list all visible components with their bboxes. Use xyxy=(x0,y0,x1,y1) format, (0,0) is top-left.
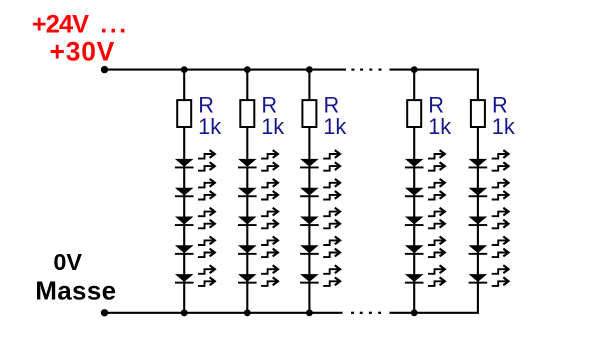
LED D19 (branch 4, position 4): diode triangle, cathode bar, light arrows xyxy=(405,237,445,258)
svg-text:1k: 1k xyxy=(492,114,515,139)
LED D25 (branch 5, position 5): diode triangle, cathode bar, light arrows xyxy=(469,265,509,286)
svg-text:1k: 1k xyxy=(261,114,284,139)
junction node: branch 1 to top rail xyxy=(181,66,188,73)
svg-text:1k: 1k xyxy=(323,114,346,139)
wire: branch 1 vertical from top rail to resistor xyxy=(183,70,185,102)
wire: branch 4 vertical from resistor through LED string to bottom rail xyxy=(413,126,415,313)
LED D1 (branch 1, position 1): diode triangle, cathode bar, light arrows xyxy=(175,150,215,171)
svg-text:0V: 0V xyxy=(53,249,82,275)
terminal node: +24V supply connection point xyxy=(101,66,108,73)
wire: branch 2 vertical from resistor through LED string to bottom rail xyxy=(246,126,248,313)
svg-text:Masse: Masse xyxy=(35,275,116,305)
wire: top rail right segment to last branch corner xyxy=(390,69,479,71)
junction node: branch 2 to top rail xyxy=(244,66,251,73)
junction node: branch 4 to bottom rail xyxy=(411,309,418,316)
wire: bottom rail continuation dots (break) xyxy=(351,312,381,314)
LED D2 (branch 1, position 2): diode triangle, cathode bar, light arrows xyxy=(175,179,215,200)
LED D10 (branch 2, position 5): diode triangle, cathode bar, light arrows xyxy=(238,265,278,286)
LED D23 (branch 5, position 3): diode triangle, cathode bar, light arrows xyxy=(469,208,509,229)
LED D3 (branch 1, position 3): diode triangle, cathode bar, light arrows xyxy=(175,208,215,229)
LED D7 (branch 2, position 2): diode triangle, cathode bar, light arrows xyxy=(238,179,278,200)
resistor R2 1k body xyxy=(240,100,254,127)
junction node: branch 2 to bottom rail xyxy=(244,309,251,316)
svg-text:1k: 1k xyxy=(428,114,451,139)
LED D16 (branch 4, position 1): diode triangle, cathode bar, light arrows xyxy=(405,150,445,171)
wire: branch 2 vertical from top rail to resistor xyxy=(246,70,248,102)
LED D5 (branch 1, position 5): diode triangle, cathode bar, light arrows xyxy=(175,265,215,286)
wire: branch 5 vertical from resistor through LED string to bottom rail xyxy=(477,126,479,313)
LED D8 (branch 2, position 3): diode triangle, cathode bar, light arrows xyxy=(238,208,278,229)
wire: top rail continuation dots (break) xyxy=(351,69,381,71)
wire: bottom rail right segment to last branch corner xyxy=(390,312,479,314)
terminal node: 0V ground connection point xyxy=(101,309,108,316)
LED D13 (branch 3, position 3): diode triangle, cathode bar, light arrows xyxy=(300,208,340,229)
LED D9 (branch 2, position 4): diode triangle, cathode bar, light arrows xyxy=(238,237,278,258)
LED D17 (branch 4, position 2): diode triangle, cathode bar, light arrows xyxy=(405,179,445,200)
resistor R1 1k body xyxy=(177,100,191,127)
svg-text:+30V: +30V xyxy=(50,37,116,67)
wire: branch 5 vertical from top rail to resistor xyxy=(477,69,479,102)
LED D15 (branch 3, position 5): diode triangle, cathode bar, light arrows xyxy=(300,265,340,286)
resistor R5 1k body xyxy=(471,100,485,127)
wire: branch 3 vertical from top rail to resistor xyxy=(308,70,310,102)
junction node: branch 4 to top rail xyxy=(411,66,418,73)
LED D11 (branch 3, position 1): diode triangle, cathode bar, light arrows xyxy=(300,150,340,171)
LED D18 (branch 4, position 3): diode triangle, cathode bar, light arrows xyxy=(405,208,445,229)
svg-text:1k: 1k xyxy=(198,114,221,139)
junction node: branch 1 to bottom rail xyxy=(181,309,188,316)
wire: 0V/Masse bottom return rail, left solid segment xyxy=(105,312,343,314)
LED D24 (branch 5, position 4): diode triangle, cathode bar, light arrows xyxy=(469,237,509,258)
svg-text:+24V ...: +24V ... xyxy=(32,10,129,38)
LED D14 (branch 3, position 4): diode triangle, cathode bar, light arrows xyxy=(300,237,340,258)
LED D22 (branch 5, position 2): diode triangle, cathode bar, light arrows xyxy=(469,179,509,200)
wire: +24V top supply rail, left solid segment xyxy=(105,69,347,71)
junction node: branch 3 to bottom rail xyxy=(306,309,313,316)
wire: branch 1 vertical from resistor through LED string to bottom rail xyxy=(183,126,185,313)
LED D6 (branch 2, position 1): diode triangle, cathode bar, light arrows xyxy=(238,150,278,171)
resistor R3 1k body xyxy=(302,100,316,127)
wire: branch 3 vertical from resistor through LED string to bottom rail xyxy=(308,126,310,313)
wire: branch 4 vertical from top rail to resistor xyxy=(413,70,415,102)
LED D12 (branch 3, position 2): diode triangle, cathode bar, light arrows xyxy=(300,179,340,200)
junction node: branch 3 to top rail xyxy=(306,66,313,73)
LED D21 (branch 5, position 1): diode triangle, cathode bar, light arrows xyxy=(469,150,509,171)
resistor R4 1k body xyxy=(407,100,421,127)
LED D20 (branch 4, position 5): diode triangle, cathode bar, light arrows xyxy=(405,265,445,286)
LED D4 (branch 1, position 4): diode triangle, cathode bar, light arrows xyxy=(175,237,215,258)
